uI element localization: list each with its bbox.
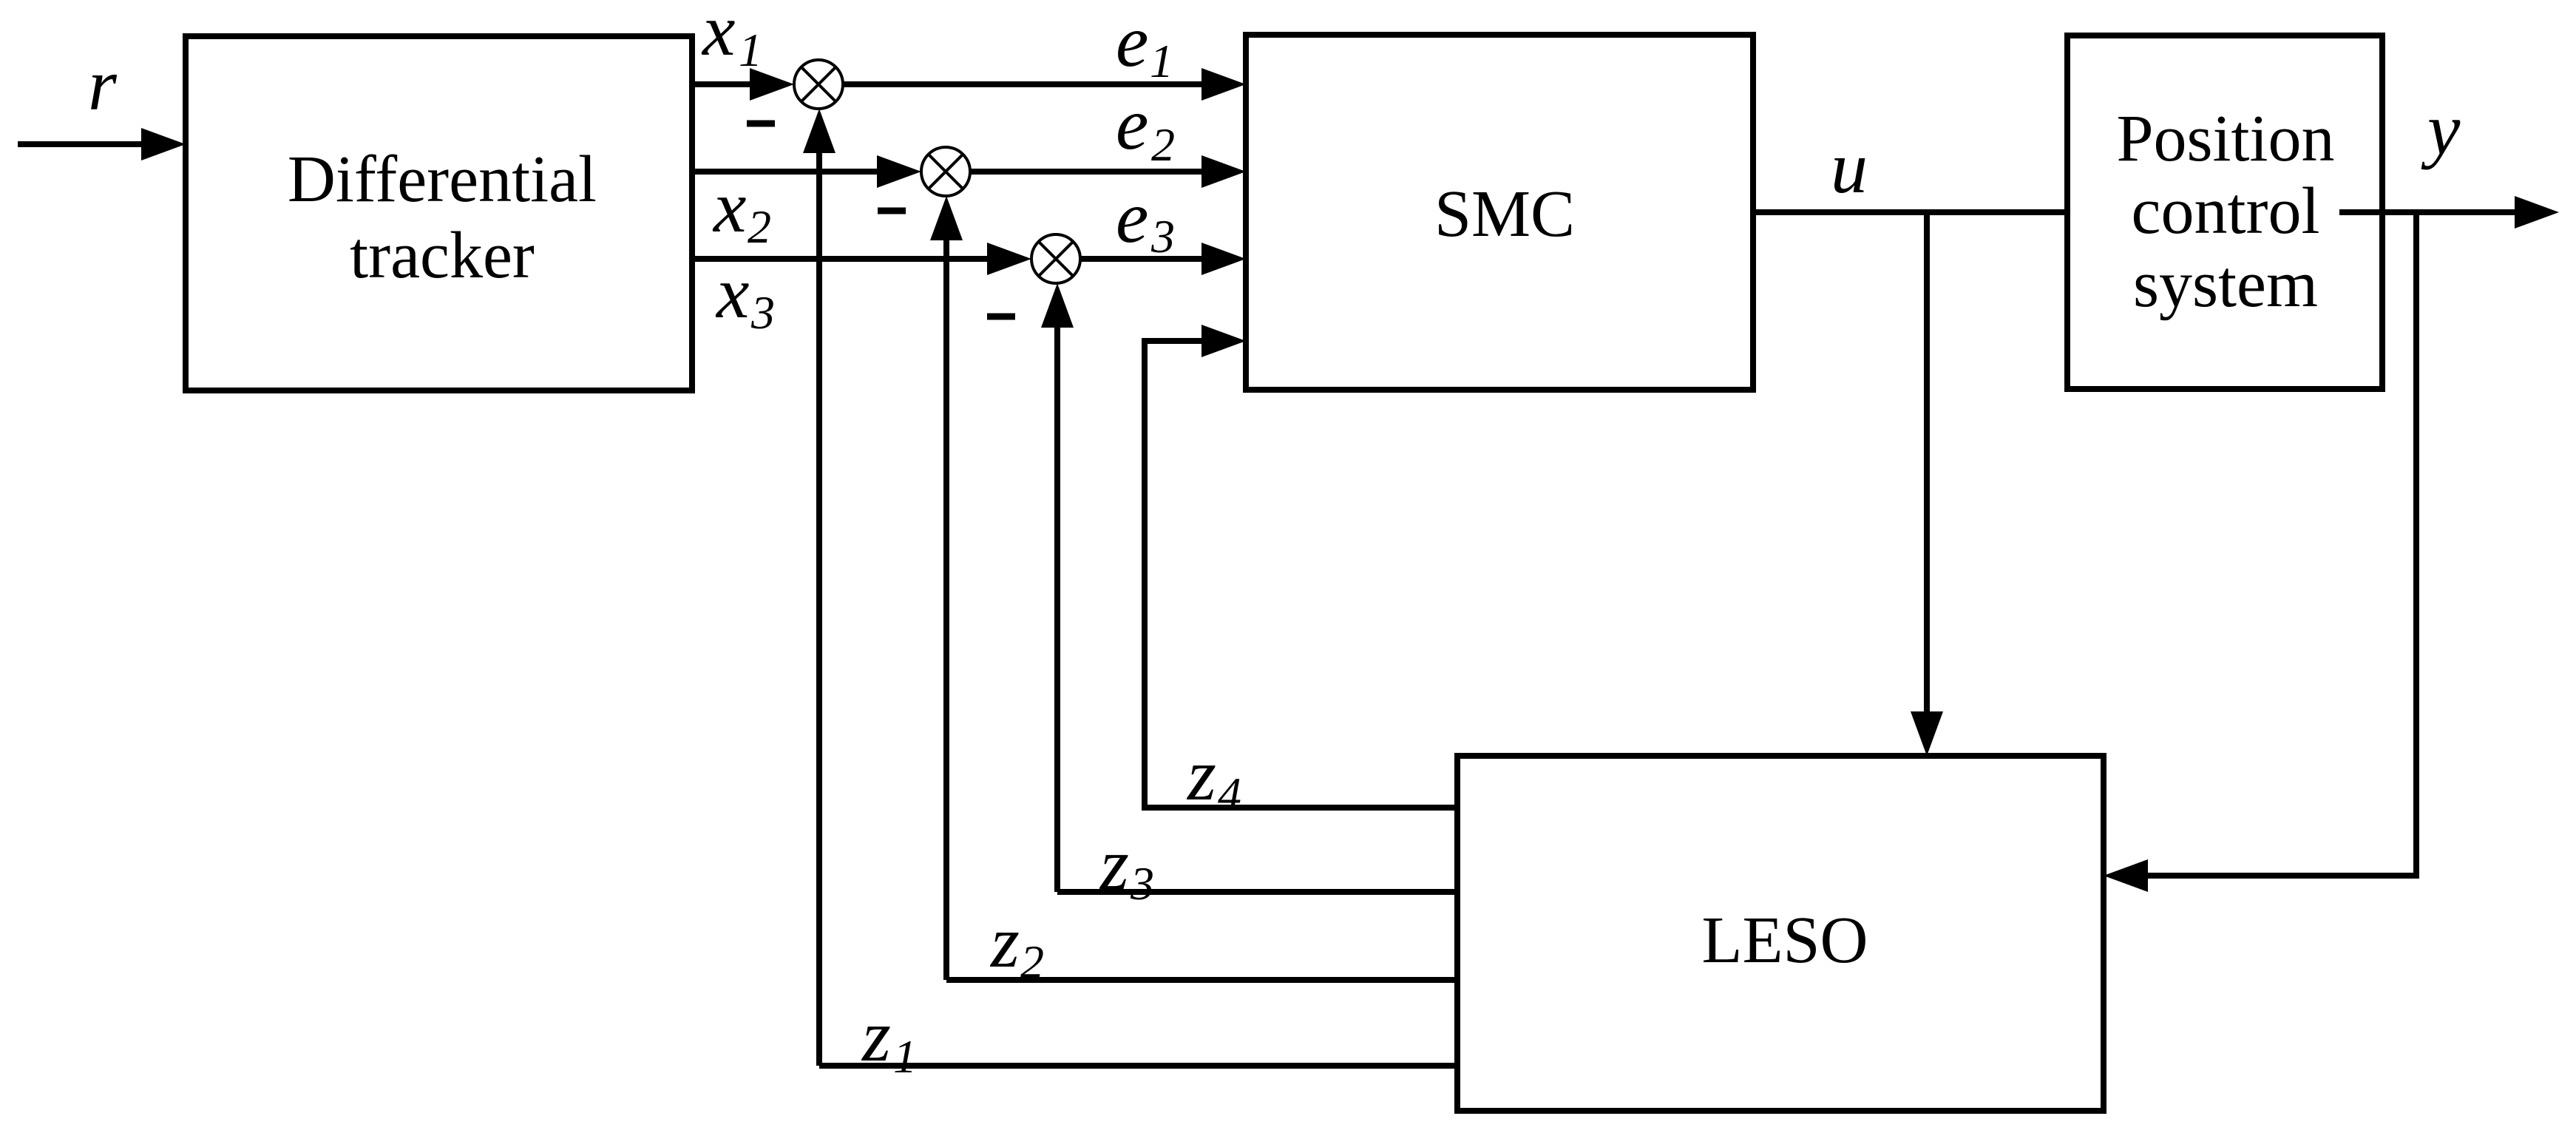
svg-text:1: 1: [739, 24, 762, 76]
wire z2 vertical to S2: [943, 237, 949, 980]
svg-text:control: control: [2132, 175, 2320, 248]
svg-text:y: y: [2421, 88, 2461, 170]
svg-text:2: 2: [1020, 936, 1044, 988]
wire e2: [970, 169, 1206, 175]
svg-text:SMC: SMC: [1434, 177, 1575, 251]
wire z4 feedback to SMC: [1145, 341, 1457, 808]
svg-text:LESO: LESO: [1702, 904, 1868, 977]
wire u branch down to LESO: [1924, 212, 1930, 714]
svg-text:3: 3: [1150, 210, 1175, 263]
wire e3: [1080, 256, 1206, 262]
summing junction S2: [921, 147, 970, 196]
wire z1 vertical to S1: [816, 150, 822, 1066]
minus sign S3: [987, 314, 1015, 320]
svg-text:z: z: [1186, 734, 1216, 816]
wire r input arrow: [18, 141, 146, 147]
svg-text:1: 1: [893, 1030, 917, 1083]
svg-text:tracker: tracker: [350, 219, 535, 292]
wire y feedback to LESO: [2146, 212, 2416, 876]
svg-text:z: z: [989, 901, 1020, 983]
wire x1: [693, 81, 754, 87]
svg-text:x: x: [712, 166, 746, 248]
block: Position control system: [2067, 35, 2382, 389]
svg-text:e: e: [1116, 83, 1148, 165]
svg-text:u: u: [1831, 126, 1868, 209]
svg-text:r: r: [88, 44, 118, 126]
svg-text:1: 1: [1150, 35, 1173, 87]
block: SMC: [1246, 35, 1753, 390]
svg-text:4: 4: [1218, 768, 1241, 820]
block: Differential tracker: [186, 36, 692, 390]
wire z3 horizontal from LESO: [1057, 889, 1457, 895]
svg-text:x: x: [701, 0, 735, 71]
svg-text:Position: Position: [2116, 102, 2334, 175]
wire z2 horizontal from LESO: [946, 977, 1457, 983]
svg-text:Differential: Differential: [288, 143, 597, 216]
svg-text:3: 3: [750, 286, 775, 339]
svg-text:e: e: [1116, 176, 1148, 258]
wire x3: [693, 256, 992, 262]
summing junction S3: [1031, 234, 1080, 283]
wire z3 vertical to S3: [1054, 325, 1060, 892]
svg-text:e: e: [1116, 0, 1148, 82]
wire u from SMC to Position control system: [1753, 209, 2067, 215]
svg-text:x: x: [715, 251, 749, 334]
wire z1 horizontal from LESO: [819, 1063, 1457, 1069]
svg-text:system: system: [2133, 248, 2318, 321]
wire e1: [843, 81, 1206, 87]
minus sign S2: [878, 208, 906, 214]
svg-text:z: z: [1099, 823, 1129, 905]
svg-text:3: 3: [1130, 857, 1154, 910]
wire x2: [693, 169, 881, 175]
summing junction S1: [794, 60, 843, 109]
svg-text:z: z: [861, 995, 891, 1077]
block: LESO: [1457, 756, 2104, 1111]
svg-text:2: 2: [748, 200, 771, 253]
svg-text:2: 2: [1151, 118, 1175, 171]
minus sign S1: [747, 121, 775, 127]
wire y output: [2339, 209, 2519, 215]
